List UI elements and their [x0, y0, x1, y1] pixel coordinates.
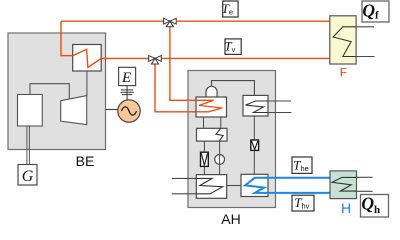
wire stubs right of AH upper HX: [268, 100, 291, 102]
valve V2 three-way on Tv line: [149, 56, 155, 62]
wire orange riser from BE HX: [61, 21, 73, 56]
wire blue supply line The: [268, 177, 330, 179]
AH lower-left heat exchanger: [196, 175, 226, 199]
electrical terminal bars: [121, 89, 133, 91]
block H heat consumer green box: [330, 171, 357, 199]
svg-text:F: F: [340, 66, 347, 80]
wire tank to pump to lower HX: [219, 141, 221, 175]
svg-text:hv: hv: [302, 202, 310, 211]
svg-text:Q: Q: [362, 0, 375, 20]
wire stubs right of H: [357, 176, 373, 178]
wire tank to valve: [203, 141, 205, 152]
generator G1 circle with sine: [118, 100, 140, 122]
svg-text:v: v: [232, 45, 236, 54]
svg-text:AH: AH: [221, 211, 240, 227]
wire orange line Te (top): [61, 20, 330, 22]
wire deaerator to tank left: [203, 117, 205, 128]
svg-text:Q: Q: [361, 194, 374, 214]
blue coil in AH lower-right HX: [245, 178, 268, 193]
wire upper HX to lower-right HX: [253, 116, 255, 174]
label box Thv: [292, 195, 314, 211]
svg-text:e: e: [229, 8, 233, 17]
wire E box to generator: [126, 86, 128, 101]
feedwater tank box: [197, 128, 228, 141]
svg-text:f: f: [375, 9, 379, 21]
label box Qf: [362, 1, 389, 22]
heat exchanger in BE box: [73, 45, 102, 72]
AH upper-right heat exchanger: [243, 95, 268, 116]
wire HX drop to turbine: [86, 71, 88, 96]
block BE (power plant unit) gray box: [8, 33, 106, 150]
pump circle: [215, 155, 225, 165]
svg-text:G: G: [22, 168, 34, 185]
svg-text:H: H: [341, 200, 351, 216]
valve below tank: [201, 152, 209, 166]
boiler (steam generator) box: [18, 95, 43, 127]
AH lower-right heat exchanger: [241, 174, 268, 196]
wire dome to right HX: [212, 81, 255, 96]
block AH (auxiliary heat unit) gray box: [188, 71, 276, 208]
svg-text:he: he: [301, 164, 309, 173]
black coil in AH upper-right HX: [246, 101, 269, 113]
wire blue return line Thv: [268, 192, 330, 194]
flash mark in tank: [216, 128, 223, 141]
wire connector between lower HXs: [227, 185, 241, 187]
black coil in AH lower-left HX: [196, 178, 222, 193]
valve on right drop: [251, 140, 259, 150]
wire steam pipe boiler to turbine: [30, 84, 69, 100]
wire valve to lower HX: [203, 166, 205, 174]
black coil in F box: [333, 27, 356, 57]
turbine trapezoid: [61, 96, 87, 125]
box G label: [18, 165, 37, 186]
valve V1 three-way on Te line: [164, 18, 170, 24]
label box Te: [223, 1, 238, 17]
label box The: [292, 157, 312, 173]
svg-text:E: E: [121, 70, 131, 86]
wire stubs left of AH lower-left HX: [172, 177, 197, 179]
deaerator dome: [206, 86, 217, 97]
wire orange drop from valve1 to deaerator: [170, 27, 214, 100]
box E label: [119, 67, 136, 85]
wire orange drop from valve2 to deaerator: [155, 64, 197, 112]
label box Qh: [361, 195, 389, 218]
orange zigzag in BE heat exchanger: [73, 49, 102, 67]
block F heat consumer yellow box: [330, 16, 356, 64]
svg-text:BE: BE: [76, 153, 95, 169]
deaerator box: [196, 97, 227, 117]
wire boiler to G line2: [28, 126, 30, 165]
wire deaerator to tank right: [220, 117, 222, 128]
orange coil in deaerator: [196, 100, 222, 112]
wire boiler to G line1: [26, 126, 28, 165]
label box Tv: [225, 39, 241, 55]
black coil in H box: [332, 177, 356, 191]
svg-text:h: h: [374, 204, 380, 216]
wire orange line Tv: [101, 57, 330, 59]
wire stubs right of F: [356, 26, 374, 28]
wire generator shaft: [106, 109, 118, 111]
